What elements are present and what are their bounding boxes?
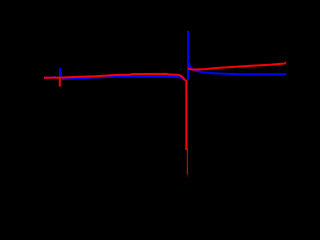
- blue curve: staircase descent right of big spike: [189, 62, 286, 74]
- red curve: small resonance down-spike at x=59.5: [59, 78, 61, 87]
- red curve: right segment with bump then rising to the right edge: [188, 63, 286, 70]
- blue curve: left baseline segment: [44, 77, 56, 78]
- blue curve: step right of small spike: [60, 72, 62, 76]
- blue curve: mid segment slowly rising then dipping toward big pole: [62, 77, 187, 81]
- red curve: left baseline segment: [44, 77, 61, 79]
- blue curve: small resonance up-spike at x=59.5: [59, 68, 61, 78]
- red curve: big pole down-spike (narrow tail): [186, 148, 188, 174]
- blue curve: big resonance up-spike at x=188: [187, 31, 189, 80]
- red curve: big pole spike fading tip: [186, 173, 188, 177]
- red curve: mid segment rising then dipping toward big pole: [61, 74, 186, 80]
- red curve: big pole down-spike (wide part): [185, 80, 187, 150]
